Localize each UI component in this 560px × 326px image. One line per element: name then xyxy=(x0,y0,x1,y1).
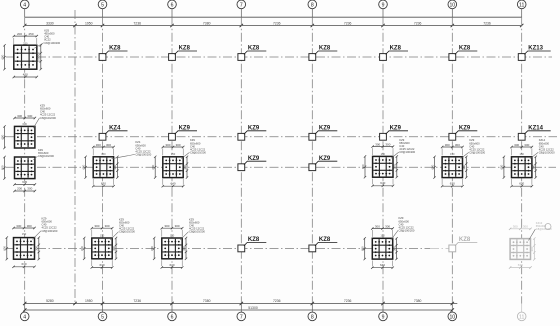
svg-text:51300: 51300 xyxy=(248,306,258,310)
svg-text:7380: 7380 xyxy=(414,299,422,303)
svg-text:7236: 7236 xyxy=(483,21,491,25)
svg-text:KZ9: KZ9 xyxy=(319,156,331,162)
svg-text:C8@100/200: C8@100/200 xyxy=(44,41,60,45)
column marker KZ9 grid 7 row B xyxy=(238,126,266,141)
svg-text:8: 8 xyxy=(311,2,314,8)
svg-text:640: 640 xyxy=(380,181,385,185)
column marker KZ8 grid 7 row A xyxy=(238,46,266,61)
svg-text:300: 300 xyxy=(27,114,32,118)
svg-text:630: 630 xyxy=(450,182,455,186)
svg-text:KZ8: KZ8 xyxy=(248,46,260,52)
svg-text:8: 8 xyxy=(311,314,314,320)
column marker KZ4 grid 5 row B xyxy=(99,126,127,141)
svg-text:300: 300 xyxy=(94,224,99,228)
svg-text:KZ8: KZ8 xyxy=(319,237,331,243)
svg-text:300: 300 xyxy=(445,143,450,147)
column detail KZ9 grid 4 row C xyxy=(0,148,54,192)
svg-text:C8@100/200: C8@100/200 xyxy=(42,229,58,233)
grid bubble 4 top xyxy=(20,0,29,17)
svg-text:600: 600 xyxy=(3,246,7,251)
svg-text:KZ9: KZ9 xyxy=(179,126,191,132)
svg-text:7380: 7380 xyxy=(203,299,211,303)
column marker KZ9 grid 10 row B xyxy=(449,126,477,141)
faint watermark circle xyxy=(545,224,551,230)
svg-text:300: 300 xyxy=(96,143,101,147)
svg-text:300: 300 xyxy=(27,187,32,191)
svg-text:630: 630 xyxy=(519,182,524,186)
grid bubble 9 top xyxy=(379,0,388,17)
svg-text:300: 300 xyxy=(375,224,380,228)
column detail KZ9 grid 4 row D xyxy=(3,217,58,268)
grid bubble 10 bottom xyxy=(448,304,457,321)
svg-text:7236: 7236 xyxy=(273,21,281,25)
vertical grid line 8 xyxy=(311,17,313,303)
svg-text:C8@100/200: C8@100/200 xyxy=(469,150,485,154)
svg-text:640: 640 xyxy=(170,182,175,186)
svg-text:KZ8: KZ8 xyxy=(248,237,260,243)
column detail KZ9 grid 10 row C xyxy=(430,138,485,187)
column marker KZ8 grid 7 row D xyxy=(238,237,266,252)
column detail KZ4 grid 5 row C xyxy=(81,140,151,187)
svg-text:250: 250 xyxy=(28,32,33,36)
svg-text:600: 600 xyxy=(361,164,365,169)
grid bubble 5 bottom xyxy=(98,304,107,321)
svg-text:4: 4 xyxy=(23,2,26,8)
svg-text:7236: 7236 xyxy=(133,21,141,25)
column detail KZ14 grid 11 row C xyxy=(500,138,555,187)
bottom dimension texts xyxy=(46,299,421,303)
bottom total dimension line xyxy=(23,306,454,312)
grid bubble 8 top xyxy=(308,0,317,17)
svg-text:11: 11 xyxy=(519,314,524,320)
svg-text:C8@100/200: C8@100/200 xyxy=(189,230,205,234)
svg-text:5280: 5280 xyxy=(46,299,54,303)
svg-text:300: 300 xyxy=(105,224,110,228)
svg-text:630: 630 xyxy=(21,262,26,266)
svg-text:4: 4 xyxy=(23,314,26,320)
svg-text:600: 600 xyxy=(0,54,4,59)
svg-text:1950: 1950 xyxy=(85,21,93,25)
svg-text:200: 200 xyxy=(17,187,22,191)
svg-text:KZ8: KZ8 xyxy=(109,46,121,52)
column marker KZ8 grid 6 row A xyxy=(169,46,197,61)
svg-text:640: 640 xyxy=(380,263,385,267)
svg-text:7236: 7236 xyxy=(344,299,352,303)
svg-text:300: 300 xyxy=(385,142,390,146)
svg-text:600: 600 xyxy=(80,246,84,251)
svg-text:150: 150 xyxy=(170,233,175,237)
vertical grid line 4 xyxy=(24,17,26,303)
column marker KZ9 grid 9 row B xyxy=(380,126,408,141)
svg-text:300: 300 xyxy=(106,143,111,147)
svg-text:7236: 7236 xyxy=(414,21,422,25)
svg-text:9: 9 xyxy=(382,314,385,320)
svg-text:KZ8: KZ8 xyxy=(459,46,471,52)
svg-text:300: 300 xyxy=(393,164,397,169)
svg-text:3330: 3330 xyxy=(46,21,54,25)
svg-text:KZ8: KZ8 xyxy=(319,46,331,52)
svg-text:KZ4: KZ4 xyxy=(109,126,121,132)
svg-text:150: 150 xyxy=(380,234,385,238)
column marker KZ9 grid 8 row C xyxy=(309,156,337,171)
svg-text:300: 300 xyxy=(514,143,519,147)
svg-text:KZ9: KZ9 xyxy=(248,156,260,162)
svg-text:600: 600 xyxy=(81,164,85,169)
svg-text:630: 630 xyxy=(101,182,106,186)
column marker KZ8 grid 8 row A xyxy=(309,46,337,61)
faint grid bubble 11 bottom xyxy=(517,304,526,321)
svg-text:300: 300 xyxy=(524,143,529,147)
vertical grid line 9 xyxy=(382,17,384,303)
grid bubble 7 top xyxy=(237,0,246,17)
svg-text:300: 300 xyxy=(523,225,528,229)
svg-text:7236: 7236 xyxy=(133,299,141,303)
svg-text:KZ9: KZ9 xyxy=(459,126,471,132)
svg-text:300: 300 xyxy=(532,164,536,169)
svg-text:6: 6 xyxy=(171,314,174,320)
vertical grid line 11 xyxy=(521,17,523,303)
svg-text:300: 300 xyxy=(530,246,534,251)
svg-text:300: 300 xyxy=(113,164,117,169)
grid bubble 11 top xyxy=(517,0,526,17)
grid bubble 9 bottom xyxy=(379,304,388,321)
grid bubble 6 bottom xyxy=(168,304,177,321)
grid bubble 8 bottom xyxy=(308,304,317,321)
column marker KZ9 grid 8 row B xyxy=(309,126,337,141)
svg-text:7236: 7236 xyxy=(344,21,352,25)
svg-text:600: 600 xyxy=(0,165,4,170)
grid bubble 4 bottom xyxy=(20,304,29,321)
svg-text:KZ8: KZ8 xyxy=(390,46,402,52)
svg-text:KZ9: KZ9 xyxy=(390,126,402,132)
svg-text:5: 5 xyxy=(101,314,104,320)
column detail KZ9 grid 6 row D xyxy=(150,218,205,269)
column detail KZ9 grid 4 row B xyxy=(0,104,56,150)
svg-text:300: 300 xyxy=(17,114,22,118)
row line C xyxy=(6,166,556,168)
svg-text:630: 630 xyxy=(22,180,27,184)
vertical grid line x xyxy=(74,10,76,304)
svg-text:300: 300 xyxy=(176,143,181,147)
svg-text:300: 300 xyxy=(182,246,186,251)
svg-text:630: 630 xyxy=(169,263,174,267)
svg-text:300: 300 xyxy=(165,143,170,147)
row line B xyxy=(6,136,557,138)
column marker KZ9 grid 6 row B xyxy=(169,126,197,141)
faint column detail grid 11 row D xyxy=(509,221,552,269)
column detail KZ9 grid 5 row D xyxy=(80,218,135,269)
svg-text:630: 630 xyxy=(23,122,28,126)
svg-text:C8@100/200: C8@100/200 xyxy=(38,154,54,158)
bottom dimension line xyxy=(23,302,457,305)
column marker KZ8 grid 5 row A xyxy=(99,46,127,61)
svg-text:300: 300 xyxy=(462,164,466,169)
svg-text:10: 10 xyxy=(449,2,455,8)
column detail KZ9 grid 6 row C xyxy=(151,138,206,187)
svg-text:150: 150 xyxy=(520,152,525,156)
svg-text:300: 300 xyxy=(375,142,380,146)
svg-text:150: 150 xyxy=(171,152,176,156)
faint column marker KZ8 grid 10 row D xyxy=(449,237,477,252)
svg-text:C8@100/200: C8@100/200 xyxy=(40,116,56,120)
svg-text:630: 630 xyxy=(99,263,104,267)
svg-text:600: 600 xyxy=(361,246,365,251)
svg-text:630: 630 xyxy=(518,263,523,267)
row line A xyxy=(6,56,552,58)
svg-text:150: 150 xyxy=(101,152,106,156)
top dimension line xyxy=(23,24,523,27)
grid bubble 7 bottom xyxy=(237,304,246,321)
svg-text:C8@100/200: C8@100/200 xyxy=(399,150,415,154)
svg-text:300: 300 xyxy=(392,246,396,251)
svg-text:6: 6 xyxy=(171,2,174,8)
svg-text:150: 150 xyxy=(381,152,386,156)
svg-text:200: 200 xyxy=(17,32,22,36)
svg-text:300: 300 xyxy=(385,224,390,228)
svg-text:7: 7 xyxy=(240,2,243,8)
svg-text:250: 250 xyxy=(23,42,28,46)
svg-text:150: 150 xyxy=(450,152,455,156)
column marker KZ8 grid 8 row D xyxy=(309,237,337,252)
svg-text:KZ14: KZ14 xyxy=(528,126,543,132)
svg-text:150 300: 150 300 xyxy=(37,52,41,63)
svg-text:5: 5 xyxy=(101,2,104,8)
svg-text:300: 300 xyxy=(27,224,32,228)
row line D faint extension xyxy=(430,247,455,249)
svg-text:300: 300 xyxy=(513,225,518,229)
svg-text:KZ13: KZ13 xyxy=(528,46,543,52)
svg-text:600: 600 xyxy=(151,164,155,169)
svg-text:KZ9: KZ9 xyxy=(248,126,260,132)
grid bubble 6 top xyxy=(168,0,177,17)
svg-text:600: 600 xyxy=(500,164,504,169)
svg-text:600: 600 xyxy=(150,246,154,251)
column marker KZ9 grid 7 row C xyxy=(238,156,266,171)
column detail KZ9 grid 9 row D xyxy=(361,216,415,269)
svg-text:C8@100/200: C8@100/200 xyxy=(135,152,151,156)
vertical grid line 5 xyxy=(102,17,104,303)
column detail KZ6 grid 4 row A xyxy=(0,29,60,79)
svg-text:7380: 7380 xyxy=(203,21,211,25)
svg-text:10: 10 xyxy=(449,314,455,320)
column marker KZ8 grid 10 row A xyxy=(449,46,477,61)
svg-text:300: 300 xyxy=(112,246,116,251)
svg-text:450: 450 xyxy=(23,72,28,76)
svg-text:7: 7 xyxy=(240,314,243,320)
vertical grid line 6 xyxy=(171,17,173,303)
svg-text:C8@100/200: C8@100/200 xyxy=(190,150,206,154)
svg-text:300: 300 xyxy=(183,164,187,169)
svg-text:11: 11 xyxy=(519,2,524,8)
svg-text:C8@100/200: C8@100/200 xyxy=(539,150,555,154)
column marker KZ13 grid 11 row A xyxy=(518,46,550,61)
grid bubble 10 top xyxy=(448,0,457,17)
column marker KZ8 grid 9 row A xyxy=(380,46,408,61)
svg-text:300: 300 xyxy=(16,224,21,228)
svg-text:1950: 1950 xyxy=(85,299,93,303)
top boundary line xyxy=(25,16,522,18)
svg-text:C8@100/200: C8@100/200 xyxy=(119,230,135,234)
svg-text:9: 9 xyxy=(382,2,385,8)
vertical grid line 10 xyxy=(451,17,453,303)
svg-text:KZ8: KZ8 xyxy=(459,237,471,243)
svg-text:KZ8: KZ8 xyxy=(179,46,191,52)
svg-text:300: 300 xyxy=(455,143,460,147)
svg-text:300: 300 xyxy=(164,224,169,228)
svg-text:7236: 7236 xyxy=(273,299,281,303)
row line D xyxy=(6,247,430,249)
column marker KZ14 grid 11 row B xyxy=(518,126,550,141)
column detail KZ9 grid 9 row C xyxy=(361,138,416,187)
svg-text:C8@100/200: C8@100/200 xyxy=(399,228,415,232)
svg-text:150: 150 xyxy=(100,233,105,237)
grid bubble 5 top xyxy=(98,0,107,17)
svg-text:600: 600 xyxy=(430,164,434,169)
top dimension texts xyxy=(46,21,491,25)
vertical grid line 7 xyxy=(240,17,242,303)
svg-text:300: 300 xyxy=(175,224,180,228)
svg-text:150: 150 xyxy=(22,232,27,236)
svg-text:KZ9: KZ9 xyxy=(319,126,331,132)
svg-text:600: 600 xyxy=(0,134,4,139)
svg-text:300: 300 xyxy=(35,246,39,251)
